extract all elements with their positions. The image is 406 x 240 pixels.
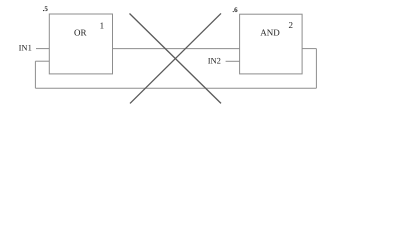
- svg-text:OR: OR: [74, 27, 87, 37]
- wire IN2 to AND pin: [226, 60, 240, 62]
- wire IN1 to OR pin: [36, 48, 49, 50]
- wire feedback left vertical: [34, 61, 36, 88]
- svg-text:1: 1: [100, 20, 105, 30]
- wire feedback bottom horizontal: [35, 87, 316, 89]
- svg-text:.6: .6: [232, 6, 238, 14]
- OR gate U1 box: [49, 14, 112, 74]
- wire OR output to AND input: [113, 48, 240, 50]
- crossing diagonal SW-NE: [130, 13, 221, 103]
- crossing diagonal NW-SE: [130, 14, 222, 104]
- svg-text:IN1: IN1: [19, 42, 32, 52]
- svg-text:AND: AND: [260, 27, 280, 37]
- AND gate U2 box: [240, 14, 303, 74]
- svg-text:2: 2: [289, 20, 294, 30]
- svg-text:.5: .5: [43, 5, 49, 13]
- wire AND output stub: [302, 48, 316, 50]
- wire feedback into OR second input: [35, 60, 49, 62]
- svg-text:IN2: IN2: [208, 55, 221, 65]
- wire feedback right vertical: [315, 49, 317, 89]
